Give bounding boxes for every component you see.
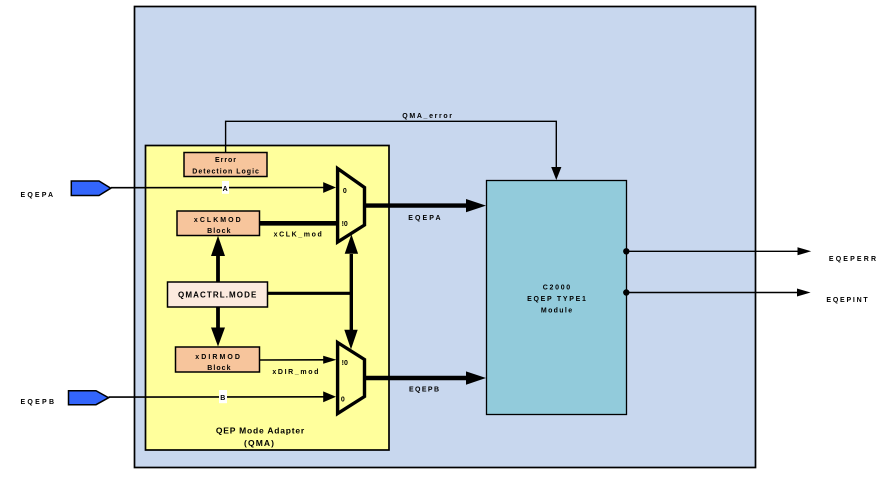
- svg-text:Detection Logic: Detection Logic: [192, 168, 259, 175]
- svg-text:C2000: C2000: [543, 284, 570, 291]
- svg-text:QMACTRL.MODE: QMACTRL.MODE: [178, 290, 257, 299]
- mux M1 (clock mux): [338, 169, 365, 243]
- wire EQEPERR output: [626, 250, 798, 252]
- wire mode-select vertical segment: [350, 254, 353, 331]
- wire QMACTRL.MODE mode-select to muxes (thick right then vertical): [268, 292, 352, 295]
- wire EQEPA (mux M1 output to C2000 module, thick): [365, 203, 469, 207]
- wire QMACTRL.MODE to xDIRMOD (thick down arrow): [216, 307, 220, 330]
- svg-text:(QMA): (QMA): [244, 438, 274, 448]
- arrowhead wire B into mux M2: [323, 391, 336, 402]
- register QMACTRL.MODE box: [168, 282, 268, 307]
- wire EQEPINT output: [626, 292, 798, 294]
- svg-text:Block: Block: [207, 365, 230, 372]
- arrowhead EQEPA into module: [466, 199, 486, 212]
- arrowhead down into xDIRMOD: [211, 328, 225, 347]
- arrowhead QMA_error into module: [551, 167, 561, 180]
- outer system boundary box: [135, 7, 756, 468]
- wire EQEPB (mux M2 output to C2000 module, thick): [365, 376, 469, 380]
- svg-text:xCLK_mod: xCLK_mod: [274, 232, 322, 239]
- svg-text:QMA_error: QMA_error: [402, 113, 452, 120]
- arrowhead EQEPINT: [797, 289, 811, 297]
- node label B: [219, 390, 227, 403]
- svg-text:Error: Error: [215, 157, 236, 164]
- arrowhead up into xCLKMOD: [211, 236, 225, 256]
- wire QMACTRL.MODE to xCLKMOD (thick up arrow): [216, 254, 220, 282]
- arrowhead down into mux M2 select: [344, 330, 357, 350]
- block U1: Error Detection Logic: [184, 153, 267, 177]
- svg-text:EQEPB: EQEPB: [21, 399, 55, 406]
- wire xCLK_mod (xCLKMOD Block to mux M1 input !0, thick): [260, 221, 339, 226]
- svg-text:EQEPA: EQEPA: [21, 192, 54, 199]
- wire xDIR_mod (xDIRMOD Block to mux M2 input !0): [260, 359, 324, 361]
- svg-text:EQEP TYPE1: EQEP TYPE1: [527, 296, 586, 303]
- wire B (EQEPB to mux M2 input 0): [109, 396, 324, 398]
- input pad EQEPB (blue connector): [69, 391, 109, 405]
- svg-text:B: B: [220, 395, 225, 402]
- node junction dot EQEPINT: [623, 289, 629, 295]
- arrowhead xDIR_mod into mux M2: [323, 356, 336, 364]
- svg-text:!0: !0: [342, 221, 348, 228]
- input pad EQEPA (blue connector): [71, 181, 111, 196]
- block U4: xDIRMOD Block: [176, 347, 260, 372]
- svg-text:xDIR_mod: xDIR_mod: [272, 369, 318, 376]
- svg-text:!0: !0: [342, 360, 348, 367]
- svg-text:Block: Block: [207, 228, 230, 235]
- mux M2 (direction mux): [338, 343, 365, 414]
- module U2: C2000 EQEP TYPE1 Module box: [487, 181, 627, 415]
- arrowhead EQEPB into module: [466, 371, 486, 384]
- arrowhead EQEPERR: [798, 247, 812, 255]
- svg-text:EQEPERR: EQEPERR: [829, 256, 876, 263]
- svg-text:QEP Mode Adapter: QEP Mode Adapter: [216, 426, 305, 436]
- svg-text:EQEPB: EQEPB: [409, 387, 439, 394]
- svg-text:0: 0: [343, 188, 347, 195]
- svg-text:Module: Module: [541, 308, 572, 315]
- block U3: xCLKMOD Block: [177, 211, 260, 236]
- node label A: [222, 181, 229, 194]
- arrowhead wire A into mux M1: [323, 182, 336, 193]
- svg-text:A: A: [223, 186, 228, 193]
- arrowhead up into mux M1 select: [345, 234, 358, 254]
- svg-text:EQEPINT: EQEPINT: [826, 297, 868, 304]
- wire QMA_error (Error box top, up, right, down into C2000 module): [226, 121, 557, 168]
- wire A (EQEPA to mux M1 input 0): [111, 187, 324, 189]
- svg-text:0: 0: [341, 396, 345, 403]
- QMA yellow region box: [146, 146, 390, 451]
- node junction dot EQEPERR: [623, 248, 629, 254]
